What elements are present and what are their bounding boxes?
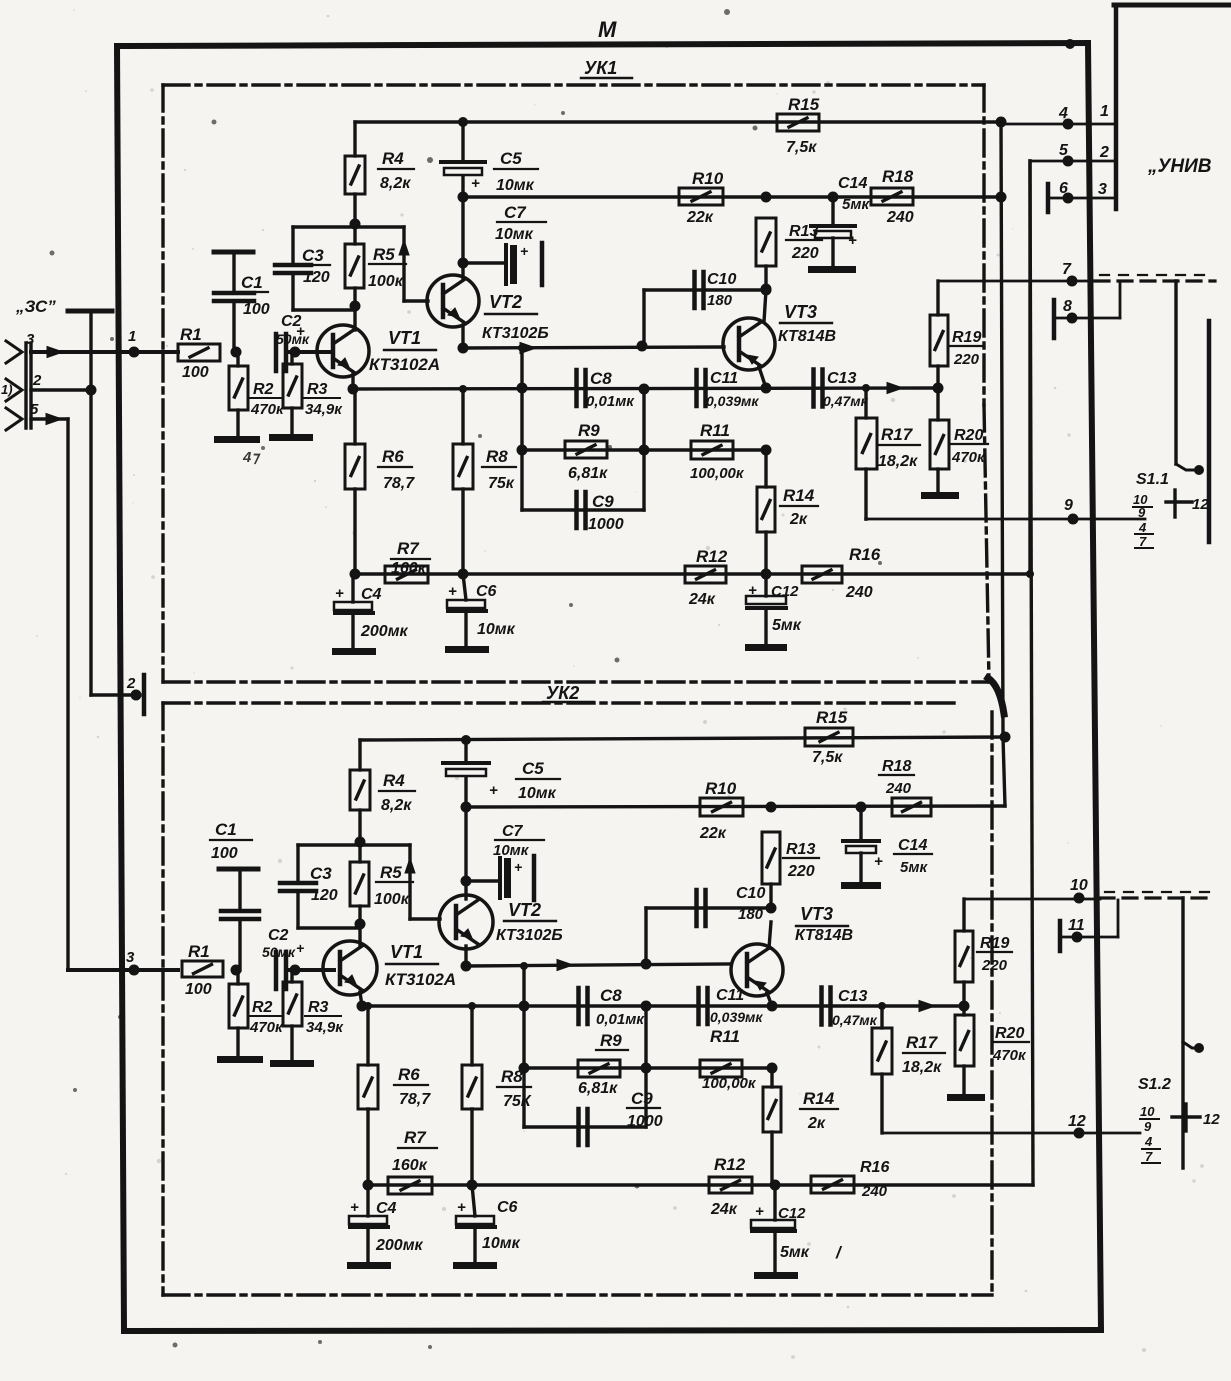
svg-text:5: 5: [30, 401, 39, 418]
svg-text:22к: 22к: [699, 825, 727, 842]
svg-text:R11: R11: [700, 421, 730, 440]
svg-text:R5: R5: [380, 863, 402, 882]
svg-text:R10: R10: [705, 779, 737, 798]
svg-text:7: 7: [1145, 1149, 1153, 1164]
svg-text:100: 100: [182, 364, 209, 381]
svg-text:R19: R19: [952, 329, 981, 346]
svg-text:С8: С8: [590, 369, 612, 388]
svg-text:С3: С3: [302, 246, 324, 265]
svg-text:100к: 100к: [374, 891, 410, 908]
svg-text:R15: R15: [788, 95, 820, 114]
svg-text:С9: С9: [631, 1089, 653, 1108]
svg-text:R14: R14: [803, 1089, 835, 1108]
svg-text:R16: R16: [860, 1159, 889, 1176]
svg-text:КТ3102А: КТ3102А: [385, 970, 456, 989]
svg-text:R20: R20: [954, 427, 983, 444]
svg-text:R18: R18: [882, 167, 914, 186]
svg-text:10мк: 10мк: [518, 785, 557, 802]
svg-text:КТ814В: КТ814В: [778, 328, 836, 345]
svg-text:С14: С14: [838, 175, 867, 192]
svg-text:С13: С13: [838, 988, 867, 1005]
svg-text:С7: С7: [504, 203, 527, 222]
svg-text:КТ3102Б: КТ3102Б: [482, 325, 549, 342]
svg-text:VТ3: VТ3: [784, 302, 817, 322]
svg-text:С10: С10: [736, 885, 765, 902]
svg-text:100: 100: [211, 845, 238, 862]
svg-text:2к: 2к: [807, 1115, 826, 1132]
svg-text:75К: 75К: [503, 1093, 532, 1110]
svg-text:R12: R12: [696, 547, 728, 566]
svg-text:7,5к: 7,5к: [786, 139, 817, 156]
svg-text:УК1: УК1: [584, 58, 617, 78]
svg-text:С10: С10: [707, 271, 736, 288]
svg-text:10мк: 10мк: [495, 226, 534, 243]
svg-text:8: 8: [1063, 298, 1072, 315]
svg-text:+: +: [874, 853, 883, 870]
svg-text:100: 100: [243, 301, 270, 318]
svg-text:2: 2: [32, 372, 42, 389]
svg-text:0,039мк: 0,039мк: [706, 393, 759, 409]
svg-text:R7: R7: [397, 539, 420, 558]
svg-text:С2: С2: [268, 927, 289, 944]
svg-text:0,47мк: 0,47мк: [832, 1012, 878, 1028]
svg-text:С4: С4: [376, 1200, 397, 1217]
svg-text:R18: R18: [882, 758, 911, 775]
svg-text:12: 12: [1203, 1111, 1220, 1128]
svg-text:R1: R1: [180, 325, 202, 344]
svg-text:50мк: 50мк: [262, 944, 296, 960]
svg-text:VТ1: VТ1: [390, 942, 423, 962]
svg-text:22к: 22к: [686, 209, 714, 226]
svg-text:2: 2: [126, 675, 136, 692]
svg-text:С11: С11: [716, 987, 744, 1004]
svg-text:С12: С12: [771, 583, 799, 600]
svg-text:5мк: 5мк: [772, 617, 802, 634]
svg-text:+: +: [848, 232, 857, 249]
svg-text:R5: R5: [373, 245, 395, 264]
svg-text:С14: С14: [898, 837, 927, 854]
svg-text:R2: R2: [252, 999, 273, 1016]
svg-text:С6: С6: [497, 1199, 518, 1216]
svg-text:120: 120: [303, 269, 330, 286]
svg-text:6: 6: [1059, 180, 1068, 197]
svg-text:4: 4: [1058, 105, 1068, 122]
svg-text:R10: R10: [692, 169, 724, 188]
svg-text:240: 240: [845, 584, 873, 601]
svg-text:7,5к: 7,5к: [812, 749, 843, 766]
svg-text:R19: R19: [980, 935, 1009, 952]
svg-text:8,2к: 8,2к: [380, 175, 411, 192]
svg-text:3: 3: [26, 331, 35, 348]
svg-text:1: 1: [128, 328, 136, 345]
svg-text:18,2к: 18,2к: [902, 1059, 942, 1076]
svg-text:1): 1): [1, 382, 13, 397]
svg-text:3: 3: [126, 949, 135, 966]
svg-text:470к: 470к: [249, 1019, 284, 1036]
svg-text:КТ3102А: КТ3102А: [369, 355, 440, 374]
svg-text:4: 4: [1138, 520, 1147, 535]
svg-text:С6: С6: [476, 583, 497, 600]
svg-text:R15: R15: [816, 708, 848, 727]
svg-text:0,01мк: 0,01мк: [596, 1011, 645, 1028]
svg-text:100,00к: 100,00к: [690, 465, 745, 482]
svg-text:С12: С12: [778, 1205, 806, 1222]
svg-text:470к: 470к: [992, 1047, 1027, 1064]
svg-text:4⁊: 4⁊: [242, 449, 261, 466]
svg-text:+: +: [350, 1199, 359, 1216]
svg-text:180: 180: [707, 292, 733, 309]
svg-text:78,7: 78,7: [383, 475, 415, 492]
svg-text:+: +: [296, 940, 304, 956]
svg-text:R2: R2: [253, 381, 274, 398]
svg-text:R9: R9: [600, 1031, 622, 1050]
svg-text:9: 9: [1144, 1119, 1152, 1134]
svg-text:S1.2: S1.2: [1138, 1076, 1171, 1093]
svg-text:180: 180: [738, 906, 764, 923]
svg-text:С4: С4: [361, 586, 382, 603]
svg-text:7: 7: [1139, 534, 1147, 549]
svg-text:R16: R16: [849, 545, 881, 564]
svg-text:4: 4: [1144, 1134, 1153, 1149]
svg-text:12: 12: [1068, 1113, 1086, 1130]
svg-text:12: 12: [1192, 496, 1209, 513]
svg-text:R4: R4: [383, 771, 405, 790]
svg-text:С7: С7: [502, 823, 524, 840]
svg-text:S1.1: S1.1: [1136, 471, 1169, 488]
svg-text:24к: 24к: [710, 1201, 738, 1218]
svg-text:С3: С3: [310, 864, 332, 883]
svg-text:R4: R4: [382, 149, 404, 168]
svg-text:1: 1: [1100, 103, 1109, 120]
svg-text:R3: R3: [307, 381, 328, 398]
svg-text:+: +: [514, 859, 522, 875]
svg-text:С1: С1: [215, 820, 237, 839]
svg-text:С9: С9: [592, 492, 614, 511]
svg-text:R8: R8: [486, 447, 508, 466]
svg-text:+: +: [489, 782, 498, 799]
svg-text:7: 7: [1062, 261, 1072, 278]
svg-text:10мк: 10мк: [493, 842, 530, 859]
svg-text:VТ1: VТ1: [388, 328, 421, 348]
svg-text:34,9к: 34,9к: [306, 1019, 344, 1036]
svg-text:200мк: 200мк: [360, 623, 409, 640]
svg-text:R14: R14: [783, 486, 815, 505]
svg-text:470к: 470к: [250, 401, 285, 418]
svg-text:10мк: 10мк: [477, 621, 516, 638]
svg-text:24к: 24к: [688, 591, 716, 608]
svg-text:5мк: 5мк: [780, 1244, 810, 1261]
svg-text:160к: 160к: [392, 1157, 428, 1174]
svg-text:VТ3: VТ3: [800, 904, 833, 924]
svg-text:200мк: 200мк: [375, 1237, 424, 1254]
svg-text:5: 5: [1059, 142, 1069, 159]
svg-text:0,039мк: 0,039мк: [710, 1009, 763, 1025]
svg-text:0,01мк: 0,01мк: [586, 393, 635, 410]
svg-text:R20: R20: [995, 1025, 1024, 1042]
svg-text:R11: R11: [710, 1027, 740, 1046]
svg-text:М: М: [598, 17, 617, 42]
svg-text:R12: R12: [714, 1155, 746, 1174]
svg-text:С11: С11: [710, 370, 738, 387]
svg-text:VТ2: VТ2: [508, 900, 541, 920]
svg-text:6,81к: 6,81к: [578, 1080, 618, 1097]
svg-text:120: 120: [311, 887, 338, 904]
svg-text:+: +: [448, 583, 457, 600]
svg-text:220: 220: [787, 863, 815, 880]
svg-text:VТ2: VТ2: [489, 292, 522, 312]
svg-text:5мк: 5мк: [900, 859, 928, 876]
svg-text:6,81к: 6,81к: [568, 465, 608, 482]
svg-text:КТ3102Б: КТ3102Б: [496, 927, 563, 944]
svg-text:3: 3: [1098, 181, 1107, 198]
svg-text:+: +: [520, 243, 528, 259]
svg-text:+: +: [755, 1203, 764, 1220]
svg-text:„УНИВ: „УНИВ: [1147, 156, 1212, 177]
svg-text:0,47мк: 0,47мк: [823, 393, 869, 409]
svg-text:240: 240: [885, 780, 912, 797]
svg-text:+: +: [296, 323, 305, 340]
svg-text:С5: С5: [500, 149, 522, 168]
svg-text:R1: R1: [188, 942, 210, 961]
svg-text:С13: С13: [827, 370, 856, 387]
svg-text:1000: 1000: [627, 1113, 663, 1130]
svg-text:78,7: 78,7: [399, 1091, 431, 1108]
svg-text:R3: R3: [308, 999, 329, 1016]
svg-text:+: +: [748, 582, 757, 599]
svg-text:470к: 470к: [951, 449, 986, 466]
svg-text:75к: 75к: [488, 475, 515, 492]
svg-text:„ЗС”: „ЗС”: [15, 297, 56, 316]
svg-text:11: 11: [1068, 917, 1085, 934]
svg-text:240: 240: [861, 1183, 888, 1200]
svg-text:100к: 100к: [368, 273, 404, 290]
svg-text:100,00к: 100,00к: [702, 1075, 757, 1092]
svg-text:R6: R6: [382, 447, 404, 466]
svg-text:КТ814В: КТ814В: [795, 927, 853, 944]
svg-text:240: 240: [886, 209, 914, 226]
svg-text:R17: R17: [906, 1033, 939, 1052]
svg-text:9: 9: [1064, 497, 1073, 514]
svg-text:10: 10: [1070, 877, 1088, 894]
svg-text:18,2к: 18,2к: [878, 453, 918, 470]
svg-text:С1: С1: [241, 273, 263, 292]
svg-text:10: 10: [1140, 1104, 1155, 1119]
svg-text:220: 220: [791, 245, 819, 262]
svg-text:220: 220: [981, 957, 1008, 974]
svg-text:220: 220: [953, 351, 980, 368]
svg-text:R13: R13: [786, 841, 815, 858]
svg-text:50мк: 50мк: [276, 331, 310, 347]
svg-text:10мк: 10мк: [496, 177, 535, 194]
svg-text:2: 2: [1099, 144, 1109, 161]
svg-text:УК2: УК2: [546, 683, 579, 703]
svg-text:2к: 2к: [789, 511, 808, 528]
svg-text:8,2к: 8,2к: [381, 797, 412, 814]
svg-text:+: +: [471, 175, 480, 192]
svg-text:5мк: 5мк: [842, 196, 870, 213]
svg-text:С5: С5: [522, 759, 544, 778]
svg-text:1000: 1000: [588, 516, 624, 533]
svg-text:100: 100: [185, 981, 212, 998]
svg-text:+: +: [457, 1199, 466, 1216]
svg-text:R7: R7: [404, 1128, 427, 1147]
svg-text:С8: С8: [600, 986, 622, 1005]
svg-text:R9: R9: [578, 421, 600, 440]
svg-text:R6: R6: [398, 1065, 420, 1084]
svg-text:R17: R17: [881, 425, 914, 444]
svg-text:34,9к: 34,9к: [305, 401, 343, 418]
svg-text:10мк: 10мк: [482, 1235, 521, 1252]
svg-text:+: +: [335, 585, 344, 602]
